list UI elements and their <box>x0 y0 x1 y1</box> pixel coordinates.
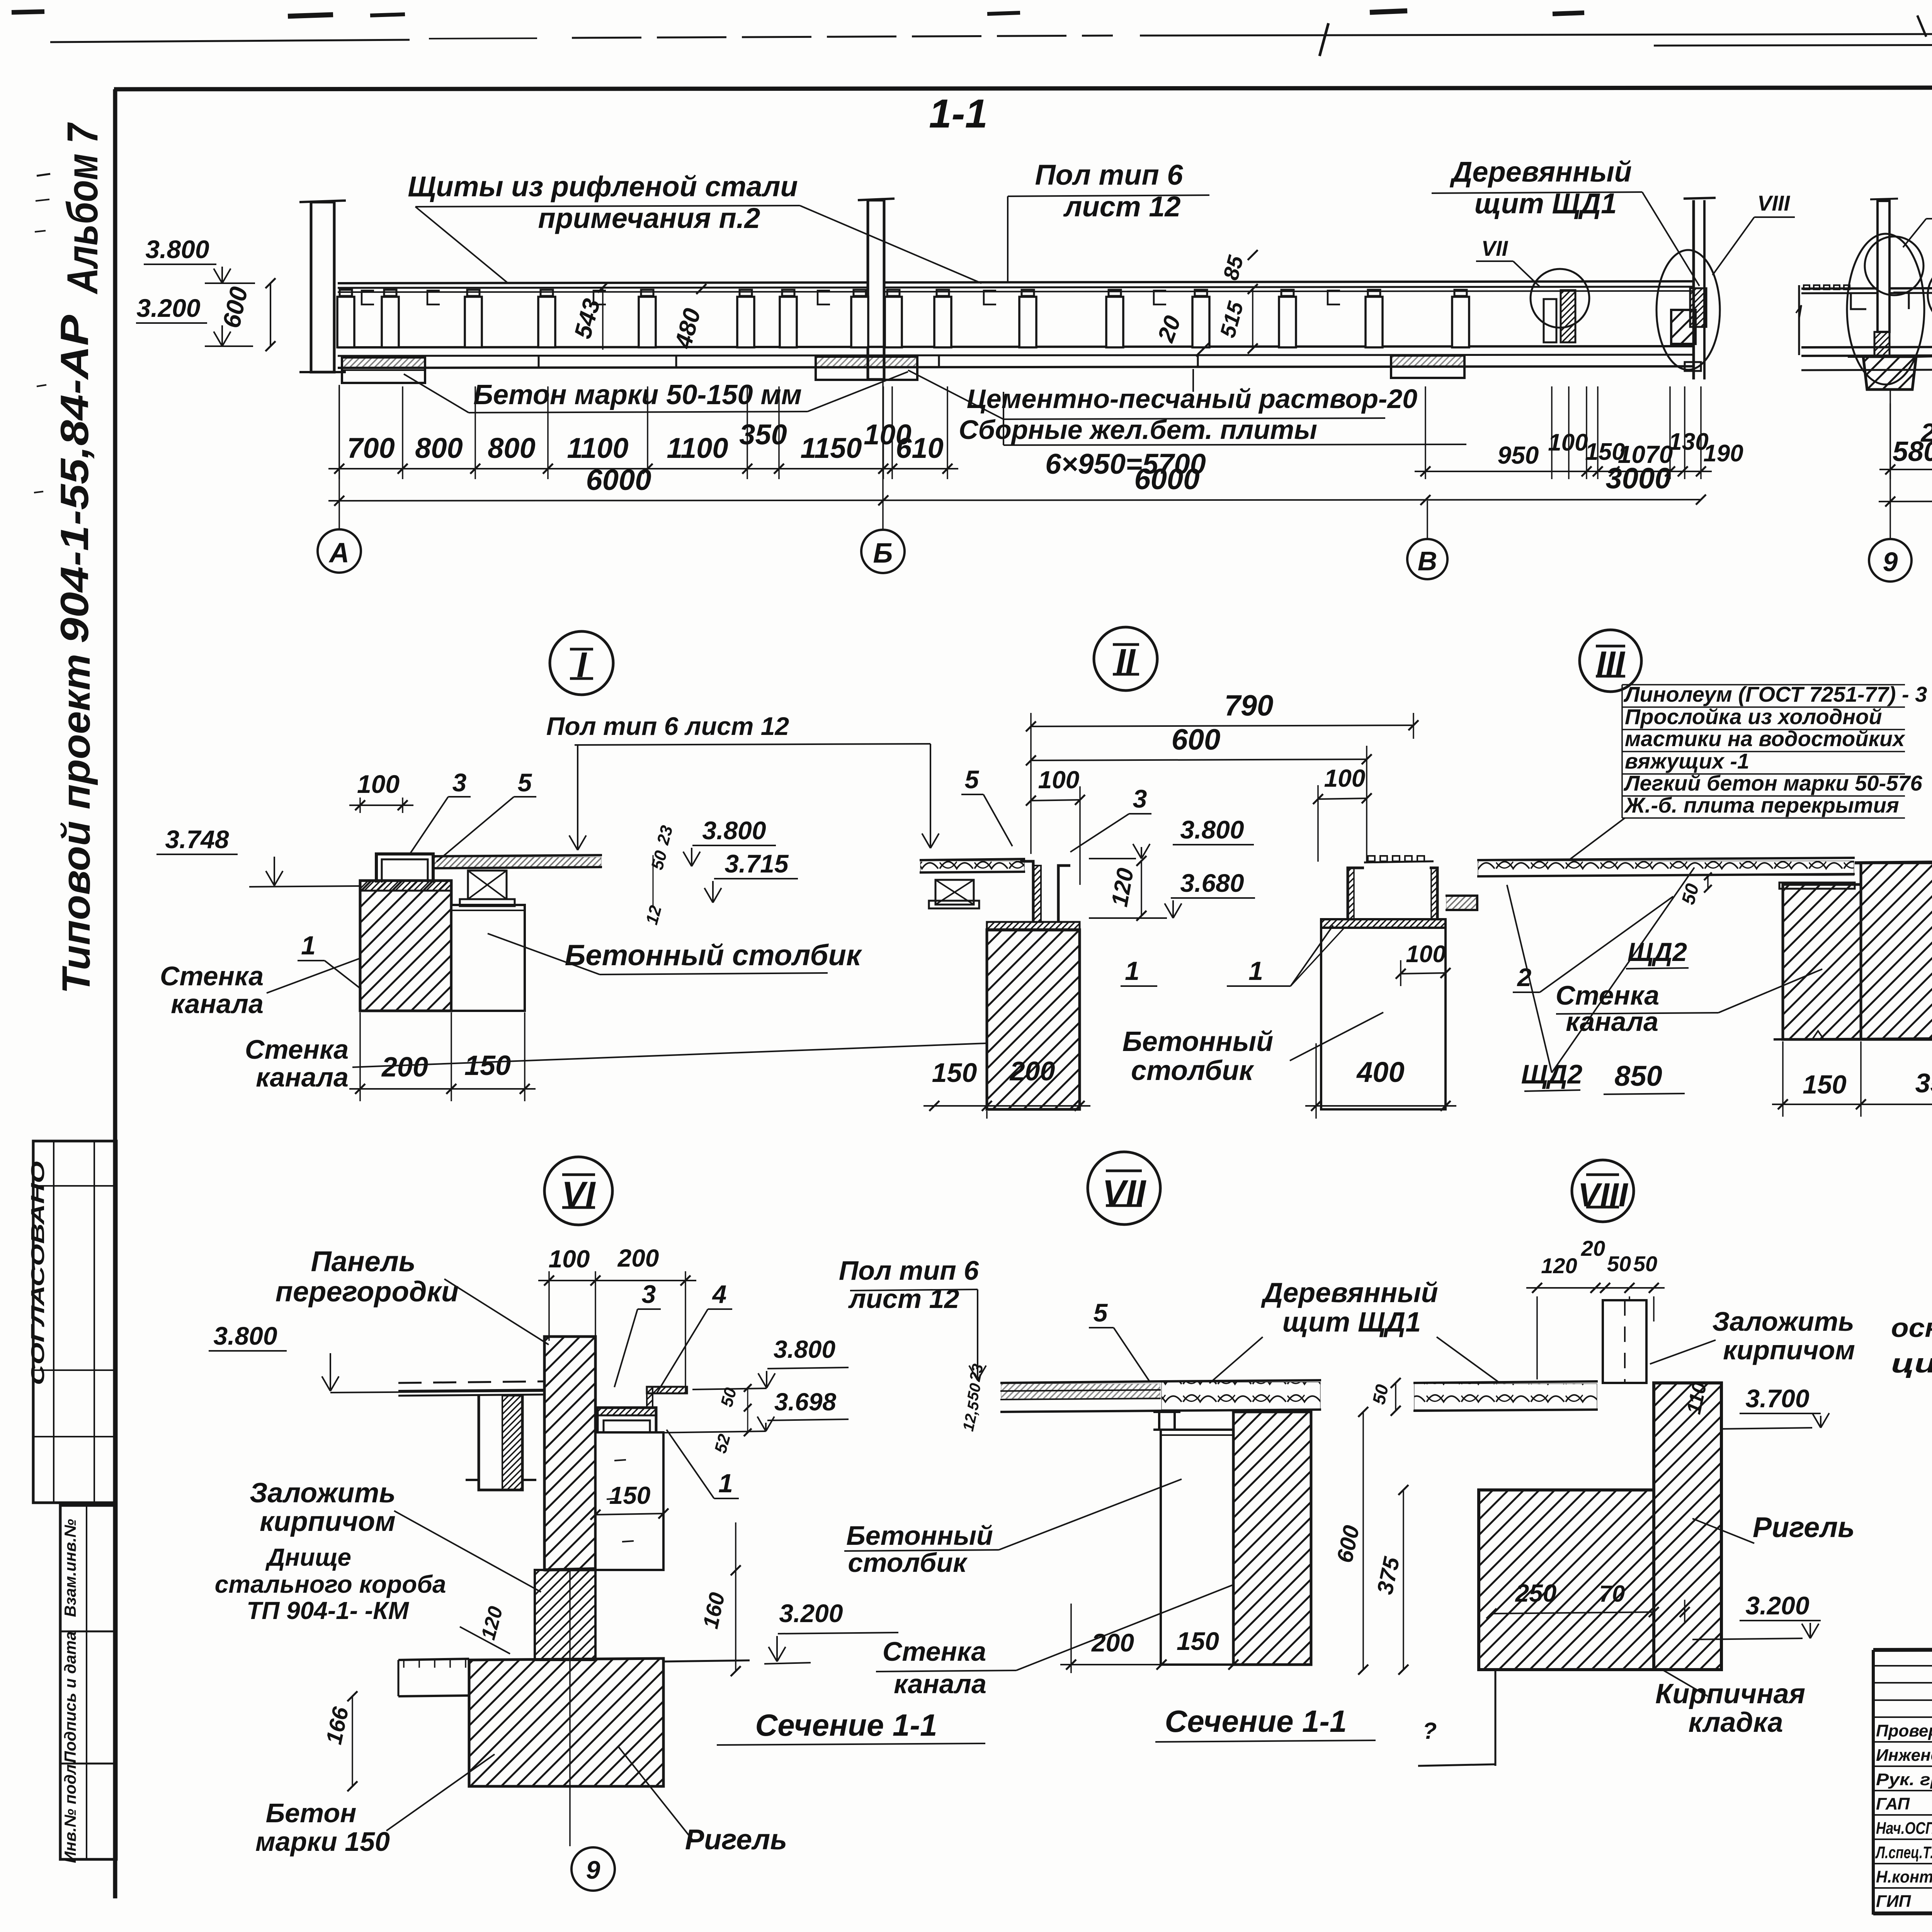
svg-text:5: 5 <box>518 768 532 797</box>
section 1-1 brick pier (detail VII ref) <box>1561 290 1575 342</box>
svg-text:20: 20 <box>1152 312 1185 346</box>
svg-text:850: 850 <box>1614 1060 1662 1092</box>
section 1-1 soffit concrete box middle <box>816 357 917 380</box>
section 1-1 wall column at axis A <box>311 202 334 372</box>
detail II channel box profile <box>1348 868 1364 919</box>
svg-text:100: 100 <box>1548 429 1588 456</box>
svg-text:600: 600 <box>1332 1523 1364 1565</box>
svg-text:Нач.ОСП-1: Нач.ОСП-1 <box>1876 1819 1932 1838</box>
svg-text:6000: 6000 <box>586 464 651 497</box>
svg-text:канала: канала <box>1566 1007 1658 1037</box>
svg-text:Н.контр.: Н.контр. <box>1876 1867 1932 1886</box>
svg-text:Бетонный столбик: Бетонный столбик <box>565 939 862 972</box>
svg-text:120: 120 <box>1541 1253 1577 1278</box>
scan artifacts top margin <box>12 12 44 12</box>
section 1-1 bottom slab <box>338 346 1694 347</box>
svg-text:515: 515 <box>1215 299 1248 340</box>
detail I bottom dims <box>359 1012 361 1101</box>
svg-text:ций ТП904-1-. -КМ.: ций ТП904-1-. -КМ. <box>1891 1348 1932 1378</box>
detail VII wall hatched right <box>1233 1412 1311 1665</box>
svg-text:СОГЛАСОВАНО: СОГЛАСОВАНО <box>28 1161 48 1385</box>
title block outer <box>1873 1648 1932 1650</box>
svg-text:350: 350 <box>739 418 787 451</box>
svg-text:Днище: Днище <box>265 1543 351 1571</box>
detail VI circle <box>544 1157 612 1225</box>
axis circle B <box>861 530 905 573</box>
svg-text:800: 800 <box>488 432 535 464</box>
svg-text:100: 100 <box>357 770 400 798</box>
detail II pad with X left <box>935 880 974 905</box>
detail VII I-beam under joint <box>1153 1411 1180 1413</box>
svg-text:вяжущих: вяжущих -1 <box>1625 749 1749 773</box>
svg-text:VIII: VIII <box>1757 191 1790 215</box>
svg-text:Стенка: Стенка <box>245 1034 349 1065</box>
section 2-2 overall 6000 <box>1879 500 1932 502</box>
svg-text:20: 20 <box>1581 1236 1605 1260</box>
detail III deck support bar <box>1779 883 1855 889</box>
svg-text:50: 50 <box>964 1382 984 1402</box>
section 2-2 dim extension verticals <box>1889 388 1891 479</box>
svg-text:Ригель: Ригель <box>685 1823 787 1855</box>
svg-text:кирпичом: кирпичом <box>260 1506 396 1537</box>
svg-text:Типовой проект: Типовой проект <box>54 654 98 994</box>
detail VIII bottom step lines <box>1495 1670 1497 1766</box>
axis line V <box>1427 501 1428 539</box>
svg-text:23: 23 <box>966 1362 986 1383</box>
svg-text:9: 9 <box>586 1855 600 1884</box>
detail VI foundation hatched block <box>469 1658 663 1786</box>
svg-text:190: 190 <box>1703 440 1743 467</box>
svg-text:100: 100 <box>1324 764 1366 792</box>
section 2-2 deck lines <box>1801 287 1932 289</box>
detail VI concrete column right <box>595 1432 663 1570</box>
svg-text:85: 85 <box>1218 253 1248 282</box>
axis line B <box>882 381 884 530</box>
detail II left wall hatched <box>987 930 1080 1109</box>
svg-text:Пол тип 6 лист 12: Пол тип 6 лист 12 <box>546 712 789 740</box>
svg-text:перегородки: перегородки <box>276 1276 459 1308</box>
section 2-2 panel hatched plug <box>1874 332 1889 357</box>
svg-text:200: 200 <box>617 1244 659 1272</box>
detail VIII reference ellipse on section 1-1 <box>1656 250 1720 370</box>
svg-text:120: 120 <box>1106 866 1138 908</box>
detail VIII upper panel <box>1603 1300 1646 1383</box>
svg-text:ГИП: ГИП <box>1876 1892 1912 1911</box>
svg-text:Заложить: Заложить <box>1712 1306 1854 1337</box>
svg-text:1: 1 <box>1125 956 1139 986</box>
svg-text:3.748: 3.748 <box>165 825 229 854</box>
svg-text:Рук. гр.: Рук. гр. <box>1876 1770 1932 1789</box>
svg-text:3000: 3000 <box>1605 462 1671 495</box>
svg-text:Деревянный: Деревянный <box>1260 1277 1438 1308</box>
svg-text:200: 200 <box>381 1052 428 1083</box>
upper band line (right) <box>1654 43 1932 46</box>
svg-text:Ригель: Ригель <box>1753 1511 1855 1543</box>
svg-text:3.200: 3.200 <box>1745 1591 1809 1620</box>
svg-text:Ж.-б. плита перекрытия: Ж.-б. плита перекрытия <box>1624 793 1899 817</box>
detail I pad with X <box>468 871 507 899</box>
personnel table name rows <box>1873 1741 1932 1743</box>
frame top <box>114 87 1932 89</box>
detail III wood deck SHD2 <box>1477 858 1855 860</box>
svg-text:канала: канала <box>256 1062 349 1092</box>
svg-text:мастики на водостойких: мастики на водостойких <box>1625 726 1906 751</box>
detail VI axis circle 9 bottom <box>569 1570 571 1846</box>
svg-text:160: 160 <box>698 1590 729 1631</box>
svg-text:Стенка: Стенка <box>160 961 264 991</box>
svg-text:600: 600 <box>1172 723 1221 756</box>
svg-text:375: 375 <box>1372 1554 1405 1597</box>
svg-text:Линолеум (ГОСТ 7251-77) - 3: Линолеум (ГОСТ 7251-77) - 3 <box>1623 682 1927 706</box>
svg-text:основном комплекте чертежей ме: основном комплекте чертежей металлически… <box>1891 1313 1932 1343</box>
svg-text:1: 1 <box>1248 956 1263 986</box>
detail III wall pier hatched (150) <box>1783 884 1861 1039</box>
svg-text:600: 600 <box>217 284 253 330</box>
svg-text:столбик: столбик <box>848 1548 968 1578</box>
detail VI deck left with dashes <box>398 1381 544 1383</box>
detail I reference circle on 2-2 <box>1928 264 1932 326</box>
svg-text:12,5: 12,5 <box>960 1400 983 1433</box>
svg-text:904-1-55,84-АР: 904-1-55,84-АР <box>53 315 97 643</box>
detail III circle <box>1580 630 1641 692</box>
detail VI partition panel hatched <box>544 1337 595 1570</box>
svg-text:9: 9 <box>1883 547 1898 577</box>
svg-text:Взам.инв.№: Взам.инв.№ <box>61 1519 79 1617</box>
detail III dims below <box>1782 1041 1784 1117</box>
svg-text:Сечение 1-1: Сечение 1-1 <box>1165 1704 1347 1738</box>
svg-text:200: 200 <box>1920 418 1932 447</box>
detail III wall bottom line with break <box>1774 1038 1932 1039</box>
svg-text:Пол тип 6: Пол тип 6 <box>1035 159 1184 191</box>
svg-text:столбик: столбик <box>1131 1055 1254 1086</box>
detail VII left deck pol tip 6 <box>1000 1381 1161 1383</box>
svg-text:3.698: 3.698 <box>774 1388 837 1416</box>
svg-text:Заложить: Заложить <box>250 1478 396 1509</box>
svg-text:3.715: 3.715 <box>724 849 789 878</box>
svg-text:3.800: 3.800 <box>774 1335 835 1363</box>
svg-text:70: 70 <box>1599 1581 1625 1607</box>
svg-text:Деревянный: Деревянный <box>1449 156 1632 188</box>
detail I dim 100 top <box>359 798 361 813</box>
svg-text:790: 790 <box>1225 689 1274 722</box>
svg-text:4: 4 <box>712 1280 727 1308</box>
detail II dim 600 <box>1031 759 1367 760</box>
svg-text:250: 250 <box>1515 1579 1557 1607</box>
svg-text:50: 50 <box>1369 1383 1393 1406</box>
svg-text:марки 150: марки 150 <box>255 1827 390 1857</box>
svg-text:канала: канала <box>171 989 264 1019</box>
svg-text:700: 700 <box>347 432 395 464</box>
detail VIII rigel hatched column <box>1654 1383 1721 1670</box>
svg-text:950: 950 <box>1498 441 1539 469</box>
svg-text:Легкий бетон марки 50-576: Легкий бетон марки 50-576 <box>1623 771 1922 795</box>
svg-text:Альбом 7: Альбом 7 <box>58 122 107 294</box>
svg-text:50: 50 <box>648 849 671 872</box>
sheet top edge (dashed) <box>50 40 410 42</box>
detail II left deck (wood panel) <box>920 859 1025 860</box>
svg-text:543: 543 <box>569 296 605 342</box>
section 1-1 overall dim 6000 row <box>328 500 1701 501</box>
svg-text:50: 50 <box>1633 1252 1657 1276</box>
svg-text:3.200: 3.200 <box>779 1599 843 1628</box>
section 1-1 channel clips under deck <box>362 291 374 304</box>
svg-text:Подпись и дата: Подпись и дата <box>61 1631 79 1763</box>
svg-text:50: 50 <box>1607 1252 1631 1276</box>
svg-text:166: 166 <box>321 1704 354 1747</box>
svg-text:100: 100 <box>549 1245 590 1273</box>
svg-text:ГАП: ГАП <box>1876 1794 1910 1813</box>
svg-text:6000: 6000 <box>1134 463 1199 496</box>
svg-text:стального короба: стального короба <box>215 1570 446 1598</box>
svg-text:1: 1 <box>718 1469 733 1498</box>
svg-text:3: 3 <box>452 768 467 797</box>
section 2-2 dim row <box>1879 469 1932 470</box>
svg-text:150: 150 <box>1803 1070 1847 1099</box>
svg-text:610: 610 <box>896 432 943 464</box>
section 2-2 bottom slab <box>1801 346 1932 347</box>
svg-text:Щиты из рифленой стали: Щиты из рифленой стали <box>408 170 798 202</box>
svg-text:23: 23 <box>653 823 677 847</box>
svg-text:200: 200 <box>1091 1628 1134 1657</box>
detail III wall top line <box>1855 861 1932 863</box>
svg-text:VII: VII <box>1481 236 1509 260</box>
detail III leader from spec to deck <box>1569 818 1625 860</box>
svg-text:Бетон: Бетон <box>266 1798 357 1828</box>
detail VI left slab stub <box>398 1659 469 1660</box>
section 1-1 column at axis B <box>868 200 884 379</box>
detail VIII reference ellipse on 2-2 <box>1847 234 1924 384</box>
svg-text:350: 350 <box>1915 1068 1932 1098</box>
detail I circle <box>550 631 613 695</box>
svg-text:100: 100 <box>1038 766 1080 794</box>
detail II right step flange <box>1446 896 1477 910</box>
svg-text:лист 12: лист 12 <box>848 1284 959 1314</box>
svg-text:3.800: 3.800 <box>702 816 766 845</box>
svg-text:12: 12 <box>642 903 665 927</box>
detail VI dim 150 inside <box>595 1514 663 1515</box>
svg-text:ТП 904-1- -КМ: ТП 904-1- -КМ <box>247 1597 409 1624</box>
svg-text:Сборные жел.бет. плиты: Сборные жел.бет. плиты <box>959 415 1317 445</box>
axis circle A <box>318 529 361 573</box>
svg-text:200: 200 <box>1009 1056 1055 1086</box>
detail III wall big hatched block <box>1861 863 1932 1039</box>
detail II dim 100 under column <box>1401 973 1446 974</box>
section 1-1 soffit line with joints <box>338 366 1694 368</box>
detail II circle <box>1094 627 1157 690</box>
detail I deck plate <box>433 855 602 856</box>
svg-text:Бетонный: Бетонный <box>846 1520 993 1551</box>
section 2-2 partition panel at axis 9 <box>1878 201 1889 332</box>
detail VI hanging channel (steel box side) <box>479 1396 522 1490</box>
svg-text:ЩД2: ЩД2 <box>1521 1059 1583 1089</box>
frame left <box>113 89 117 1898</box>
svg-text:480: 480 <box>670 306 706 352</box>
svg-text:1: 1 <box>301 931 316 960</box>
svg-text:100: 100 <box>1406 941 1446 968</box>
svg-text:5: 5 <box>1094 1298 1108 1327</box>
svg-text:52: 52 <box>711 1432 734 1455</box>
detail II dim 790 <box>1031 725 1413 726</box>
section 2-2 foundation cup hatched <box>1863 357 1916 389</box>
svg-text:800: 800 <box>415 432 463 464</box>
svg-text:В: В <box>1418 546 1437 576</box>
section 1-1 soffit concrete box left <box>342 357 425 383</box>
svg-text:Прослойка из холодной: Прослойка из холодной <box>1625 704 1882 729</box>
detail VII wood deck SHD1 <box>1161 1380 1321 1381</box>
detail VII circle <box>1088 1152 1160 1225</box>
svg-text:Стенка: Стенка <box>1556 980 1659 1010</box>
detail II dim 100 left <box>1031 800 1080 801</box>
section 1-1 dim row values B-V <box>1415 471 1712 472</box>
svg-text:кирпичом: кирпичом <box>1723 1335 1855 1365</box>
svg-text:Инженер: Инженер <box>1876 1746 1932 1765</box>
section 1-1 dim row values A-B <box>328 468 958 469</box>
svg-text:1100: 1100 <box>567 432 628 464</box>
scan smudges left margin <box>37 174 50 176</box>
svg-text:5: 5 <box>965 765 980 794</box>
detail VII concrete column <box>1161 1430 1233 1665</box>
detail II dims below <box>986 1111 988 1119</box>
margin stamp table lower (inv no table) <box>60 1505 116 1859</box>
svg-text:1150: 1150 <box>800 432 862 464</box>
leader lines to deck <box>415 207 508 283</box>
svg-text:кладка: кладка <box>1688 1707 1783 1738</box>
detail VI dims 100 200 top <box>548 1271 550 1341</box>
svg-text:3: 3 <box>642 1280 656 1308</box>
svg-text:3.800: 3.800 <box>145 235 209 264</box>
section 1-1 deck top lines <box>338 282 868 283</box>
axis circle 9 top <box>1889 403 1891 539</box>
svg-text:Сечение 1-1: Сечение 1-1 <box>755 1708 937 1742</box>
svg-text:Панель: Панель <box>311 1245 415 1277</box>
detail I curb angle on wall <box>376 854 433 883</box>
detail II center column with channel box <box>1321 919 1446 928</box>
detail II channel upright on wall <box>1020 861 1033 922</box>
svg-text:1-1: 1-1 <box>929 91 988 136</box>
svg-text:150: 150 <box>464 1050 511 1081</box>
svg-text:Инв.№ подл.: Инв.№ подл. <box>61 1760 79 1863</box>
svg-text:150: 150 <box>1177 1627 1219 1655</box>
detail VIII brick mass hatched <box>1479 1490 1654 1670</box>
section 1-1 dimension extension verticals <box>338 386 340 479</box>
detail VIII wood deck SHD1 <box>1413 1381 1598 1383</box>
svg-text:3.800: 3.800 <box>213 1321 277 1350</box>
svg-text:?: ? <box>1423 1718 1437 1744</box>
svg-text:3.680: 3.680 <box>1180 869 1244 897</box>
svg-text:Б: Б <box>873 538 893 569</box>
svg-text:Бетонный: Бетонный <box>1122 1026 1274 1057</box>
svg-text:Цементно-песчаный раствор-20: Цементно-песчаный раствор-20 <box>967 384 1418 414</box>
svg-text:щит ЩД1: щит ЩД1 <box>1282 1307 1421 1338</box>
margin stamp table upper (soglasovano) <box>33 1141 116 1503</box>
svg-text:Кирпичная: Кирпичная <box>1655 1679 1805 1709</box>
section 2-2 deck step at panel <box>1851 293 1866 309</box>
section 2-2 deck grating teeth left <box>1804 285 1810 289</box>
detail II grating teeth on box <box>1368 856 1375 861</box>
section 1-1 soffit concrete box right <box>1391 355 1464 378</box>
svg-text:3.800: 3.800 <box>1180 815 1244 844</box>
svg-text:130: 130 <box>1668 429 1708 455</box>
detail VIII circle <box>1572 1160 1634 1222</box>
axis circle V <box>1407 539 1447 579</box>
svg-text:3.200: 3.200 <box>136 294 200 322</box>
svg-text:150: 150 <box>609 1481 651 1509</box>
svg-text:Л.спец.Т.О.: Л.спец.Т.О. <box>1875 1843 1932 1862</box>
svg-text:1100: 1100 <box>667 432 728 464</box>
detail VI curb angle right <box>597 1408 656 1432</box>
detail I wall hatched <box>360 881 451 1011</box>
svg-text:канала: канала <box>894 1669 986 1699</box>
detail VI brick infill under panel <box>535 1570 595 1660</box>
detail VI reference circle on 2-2 <box>1865 236 1923 295</box>
svg-text:120: 120 <box>477 1604 507 1642</box>
section 2-2 left end detail at axis 9 <box>1798 285 1800 355</box>
svg-text:Бетон марки 50-150 мм: Бетон марки 50-150 мм <box>473 379 802 410</box>
svg-text:400: 400 <box>1356 1056 1404 1088</box>
detail VII dims below <box>1070 1604 1072 1673</box>
svg-text:3.700: 3.700 <box>1745 1384 1809 1413</box>
svg-text:Провер.: Провер. <box>1876 1721 1932 1740</box>
svg-text:150: 150 <box>932 1058 977 1088</box>
section 1-1 right end wall <box>1692 200 1695 379</box>
detail VI Z-angle step <box>647 1387 687 1393</box>
detail II dim 100 right <box>1318 798 1367 799</box>
svg-text:Стенка: Стенка <box>883 1636 986 1667</box>
svg-text:Пол тип 6: Пол тип 6 <box>839 1255 979 1286</box>
axis line A <box>338 385 340 529</box>
svg-text:А: А <box>328 537 349 568</box>
section 1-1 posts under deck <box>337 297 354 347</box>
personnel table thin rows <box>1873 1665 1932 1667</box>
detail VII reference circle on section 1-1 <box>1531 269 1589 328</box>
detail I concrete column <box>451 905 525 1011</box>
svg-text:3: 3 <box>1133 784 1147 813</box>
